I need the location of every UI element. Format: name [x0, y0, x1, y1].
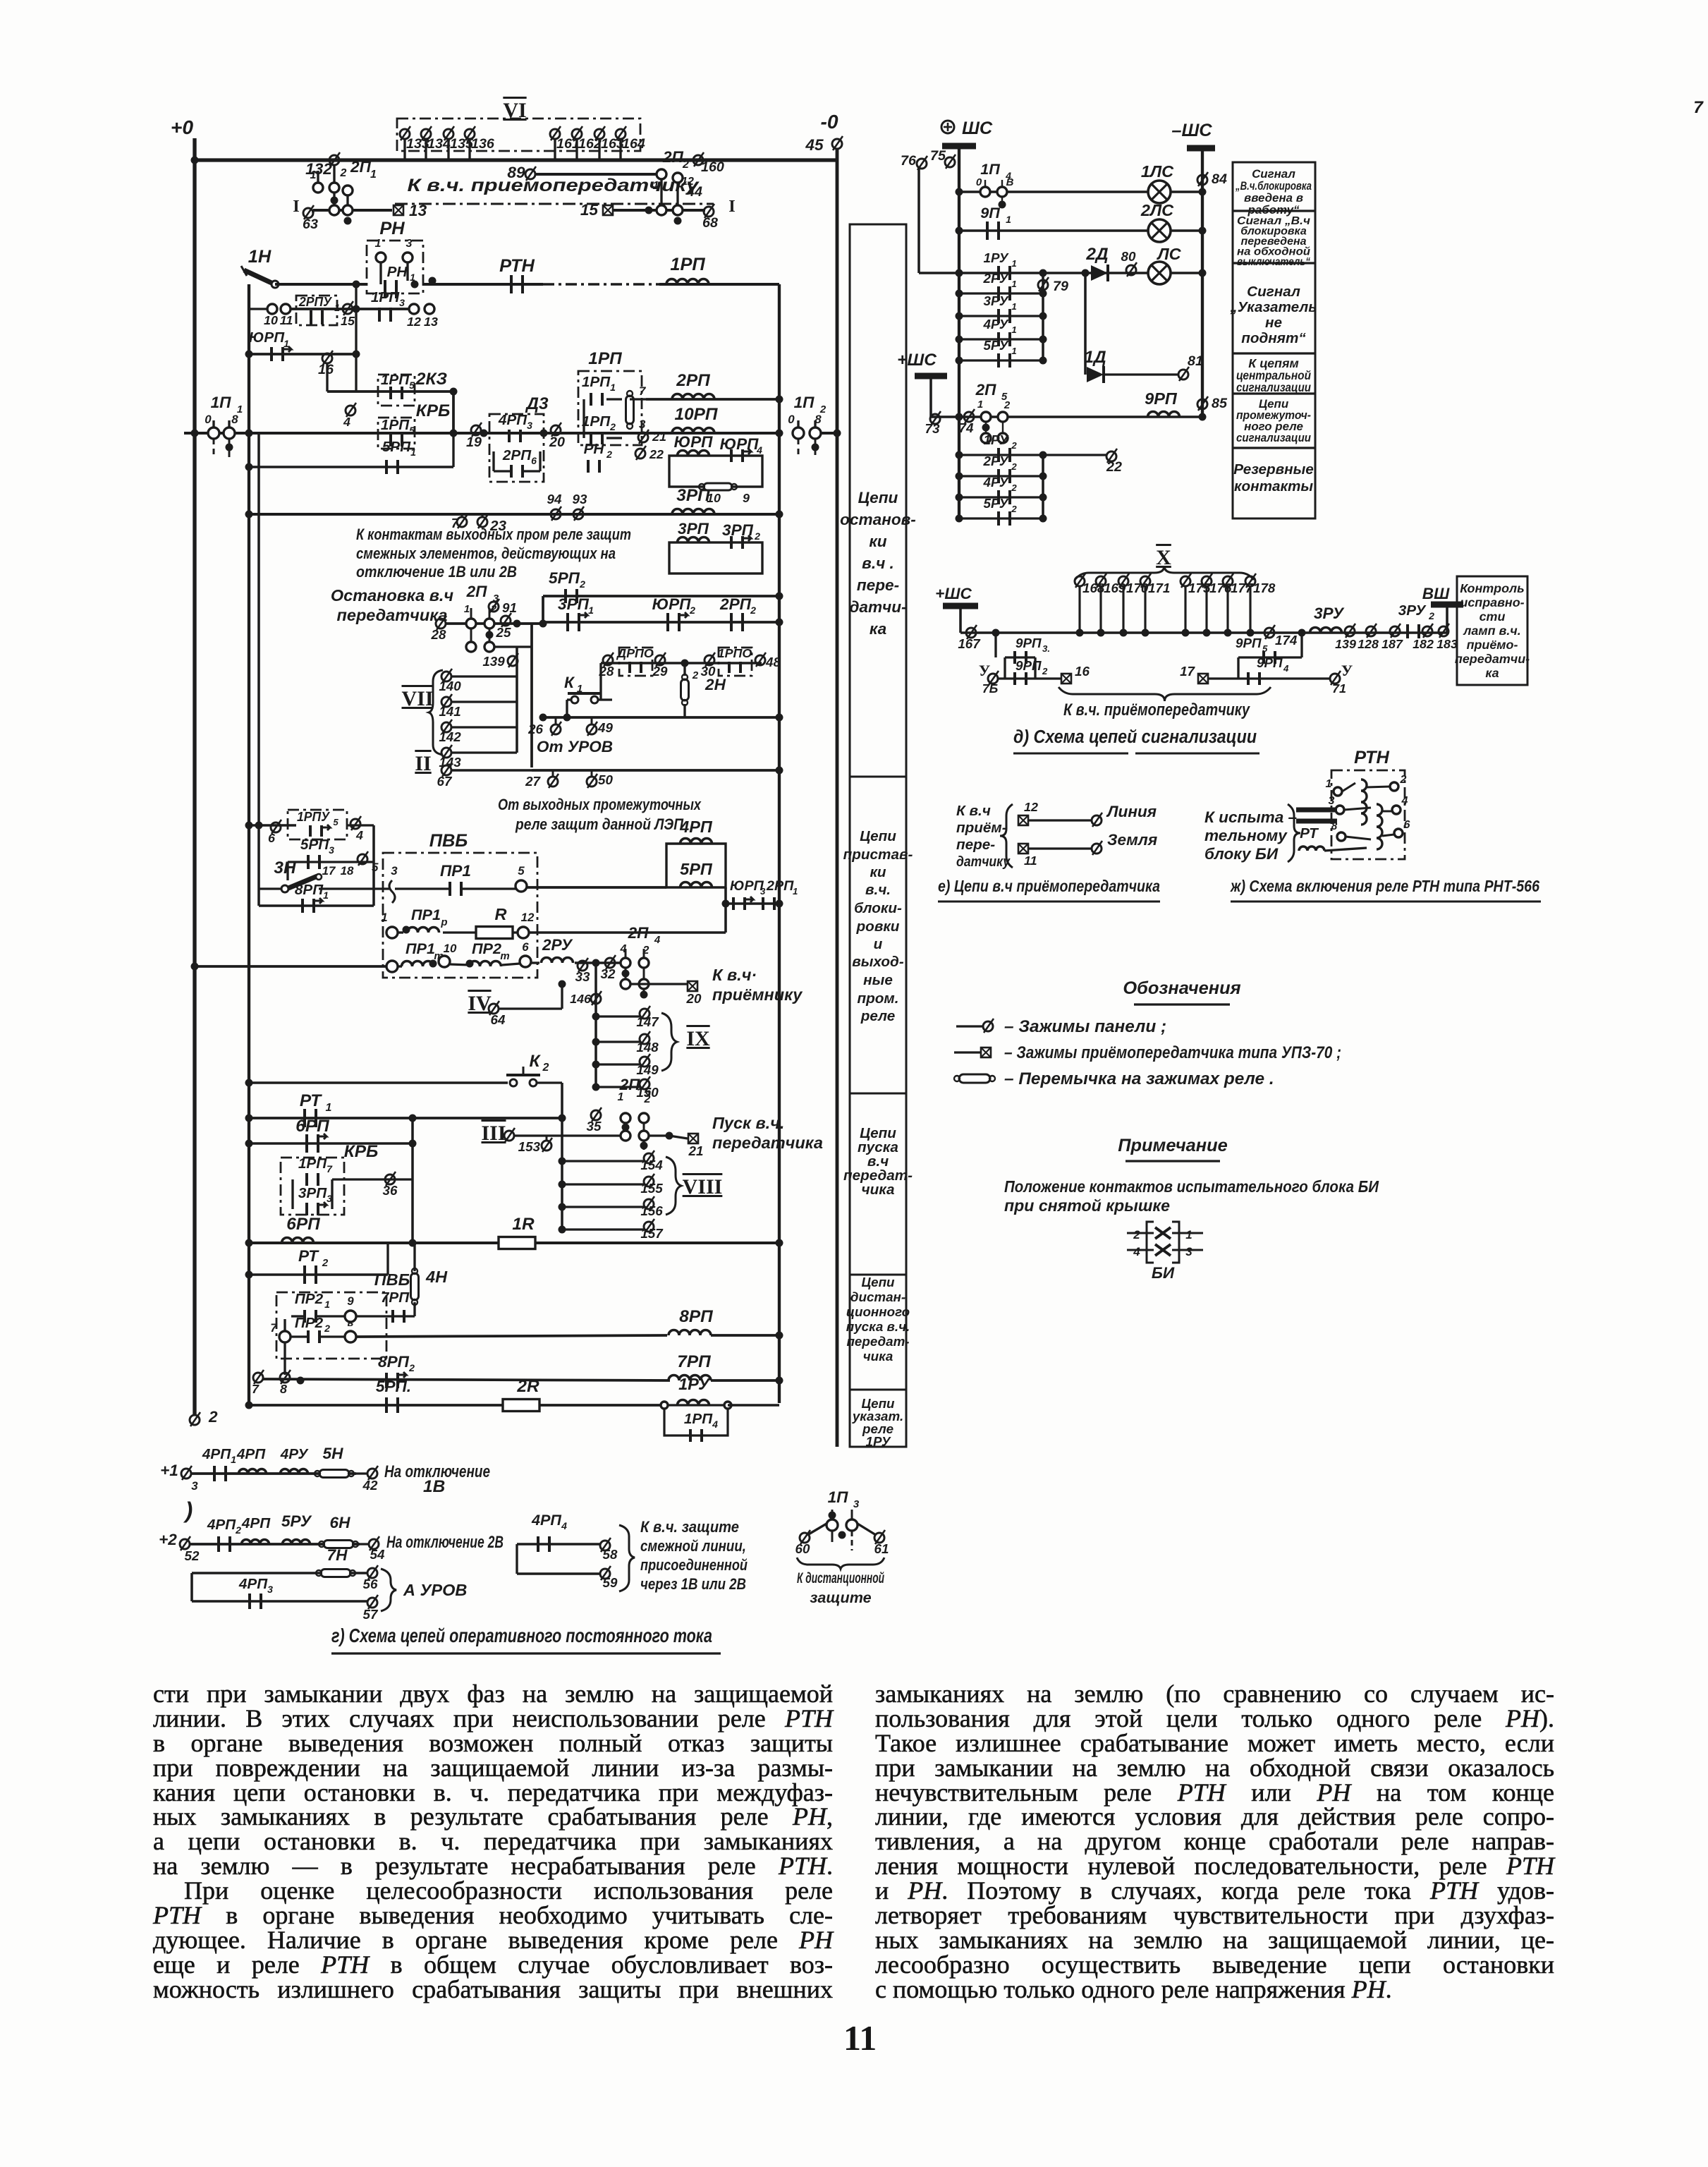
wire [212, 420, 214, 427]
svg-text:139: 139 [482, 654, 505, 669]
pin 6 [520, 956, 531, 967]
contact 2РПУ1 [311, 310, 322, 324]
svg-text:1РП: 1РП [298, 1155, 327, 1172]
wire [625, 949, 627, 958]
svg-text:присоединенной: присоединенной [640, 1556, 748, 1574]
svg-text:2: 2 [579, 578, 585, 590]
terminal 8 [280, 1370, 291, 1384]
coil 5РП [681, 882, 712, 888]
svg-text:„Указатель: „Указатель [1229, 299, 1317, 315]
contact 4РП3 [250, 1594, 261, 1609]
svg-text:73: 73 [925, 421, 940, 436]
svg-text:R: R [495, 905, 507, 923]
junction [559, 1115, 566, 1122]
wire [1300, 633, 1303, 657]
svg-text:160: 160 [701, 159, 724, 175]
pin 9 [345, 1311, 356, 1322]
terminal 28 [436, 616, 446, 630]
svg-text:3: 3 [527, 420, 532, 431]
wire [374, 887, 389, 890]
wire [643, 949, 645, 958]
coil 4РП [681, 839, 712, 844]
svg-text:45: 45 [805, 136, 824, 154]
svg-text:III: III [481, 1122, 506, 1145]
terminal 140 [441, 669, 452, 683]
terminal 6 [271, 820, 281, 834]
svg-text:6: 6 [531, 455, 537, 466]
wire [959, 609, 962, 633]
wire [535, 173, 661, 176]
svg-text:141: 141 [439, 704, 460, 719]
svg-text:1: 1 [1011, 346, 1016, 356]
wire [959, 496, 1043, 498]
wire [958, 149, 960, 516]
wire [1324, 848, 1367, 851]
wire [386, 1243, 389, 1275]
svg-text:2: 2 [682, 159, 689, 171]
contact 3РП2 [731, 535, 751, 549]
push contact К2 [506, 1067, 540, 1086]
svg-text:6: 6 [1404, 819, 1410, 831]
junction [245, 1402, 253, 1409]
indicator 7Н [316, 1570, 355, 1577]
svg-text:171: 171 [1148, 581, 1170, 595]
terminal 148 [640, 1031, 650, 1045]
contact 9РП2 [1015, 672, 1026, 685]
wire [994, 633, 996, 657]
svg-text:– Зажимы приёмопередатчика: – Зажимы приёмопередатчика типа УПЗ-70 ; [1004, 1043, 1341, 1062]
junction [513, 620, 521, 628]
coil 4РП (2) [242, 1540, 269, 1544]
wire [931, 415, 1202, 418]
svg-text:10: 10 [444, 942, 457, 955]
wire [711, 1334, 779, 1337]
svg-text:ПР1: ПР1 [440, 862, 471, 880]
wire [1005, 656, 1035, 658]
svg-text:1РУ: 1РУ [984, 250, 1009, 265]
terminal 149 [640, 1054, 650, 1068]
svg-text:17: 17 [1180, 664, 1195, 679]
wire [275, 283, 367, 286]
wire [831, 1531, 834, 1542]
junction [956, 188, 963, 196]
junction [956, 413, 963, 421]
2П3 pivot [466, 619, 476, 629]
contact 9РП5 [1264, 651, 1275, 664]
terminal IV [489, 1001, 499, 1015]
svg-text:164: 164 [622, 136, 645, 152]
terminal 170 [1118, 573, 1129, 588]
2П3 pivot [484, 619, 494, 629]
wire [494, 645, 532, 648]
svg-text:ПР1: ПР1 [405, 940, 435, 957]
svg-text:61: 61 [874, 1541, 889, 1556]
terminal 156 [644, 1196, 654, 1210]
wire [851, 1510, 853, 1519]
svg-text:71: 71 [1332, 681, 1346, 696]
svg-text:50: 50 [598, 772, 613, 787]
svg-text:смежных элементов, действующих: смежных элементов, действующих на [356, 545, 616, 562]
svg-text:IX: IX [686, 1027, 710, 1050]
contact 1РПУ5 box [288, 810, 347, 839]
wire [676, 183, 678, 205]
contact 10РП4 [731, 449, 751, 462]
svg-text:140: 140 [439, 679, 461, 693]
svg-text:передатчика: передатчика [712, 1134, 823, 1152]
wire [355, 354, 357, 391]
terminal 79 [1038, 277, 1049, 291]
wire [379, 262, 382, 284]
junction [344, 217, 352, 225]
wire [724, 887, 727, 933]
contact РТ2 [305, 1265, 316, 1284]
svg-text:3: 3 [406, 238, 413, 250]
svg-text:3: 3 [267, 1584, 273, 1595]
junction [245, 1079, 253, 1087]
wire [461, 514, 463, 517]
svg-text:174: 174 [1275, 633, 1298, 648]
svg-text:1: 1 [324, 1299, 330, 1310]
wire [406, 262, 408, 281]
transceiver terminal 15 [603, 205, 613, 215]
svg-text:5РП: 5РП [549, 569, 580, 587]
junction [429, 277, 437, 285]
wire [529, 931, 726, 934]
wire [998, 677, 1061, 679]
svg-text:15: 15 [341, 314, 355, 328]
svg-text:2: 2 [1011, 440, 1017, 451]
svg-text:+ШС: +ШС [935, 585, 972, 602]
wire [516, 1544, 518, 1574]
svg-text:2: 2 [609, 421, 616, 432]
pin 5 [516, 880, 527, 892]
svg-text:1РУ: 1РУ [866, 1434, 891, 1449]
device Д3 dashed box [489, 414, 544, 482]
wire [594, 963, 597, 1087]
resistor 1R [499, 1237, 535, 1249]
2П6 pivot [621, 1113, 630, 1123]
svg-text:1РП: 1РП [381, 417, 410, 433]
wire [451, 769, 532, 772]
lamp 1ЛС [1148, 181, 1171, 203]
wire [596, 1040, 640, 1043]
svg-text:1РПУ: 1РПУ [297, 809, 330, 824]
terminal 15 [343, 301, 353, 315]
wire [683, 663, 685, 676]
1П3 pivot [846, 1519, 858, 1531]
junction [191, 157, 199, 164]
wire [184, 432, 779, 435]
svg-text:в.ч .: в.ч . [862, 554, 894, 572]
wire [543, 621, 779, 624]
svg-text:2: 2 [322, 1257, 329, 1269]
wire [539, 451, 541, 471]
wire [1342, 783, 1355, 791]
svg-text:3: 3 [391, 864, 398, 878]
1П2 pivot [810, 427, 821, 439]
wire [606, 398, 622, 400]
junction [1039, 312, 1047, 320]
svg-text:148: 148 [636, 1040, 659, 1055]
terminal 128 [1366, 624, 1377, 638]
svg-text:Остановка в.ч: Остановка в.ч [331, 586, 454, 605]
svg-text:4: 4 [1401, 795, 1408, 807]
coil 10РП (loop) [678, 451, 709, 456]
wire [959, 190, 1202, 193]
terminal +1 [181, 1466, 192, 1480]
wire [1367, 787, 1390, 787]
svg-text:12: 12 [521, 911, 535, 924]
svg-text:4РП: 4РП [202, 1446, 231, 1462]
lamp control box [1457, 576, 1527, 685]
brace УРОВ [381, 1569, 396, 1611]
wire [398, 931, 403, 933]
contact ПР2-1 [305, 1310, 316, 1323]
junction [1182, 629, 1190, 637]
svg-text:–ШС: –ШС [1171, 121, 1212, 140]
wire [492, 451, 494, 471]
wire [797, 420, 799, 427]
wire [562, 1160, 645, 1162]
junction [776, 396, 783, 403]
svg-text:ШС: ШС [962, 119, 993, 138]
loop 3РП / 3РП2 [669, 542, 762, 573]
wire [596, 1086, 640, 1088]
svg-text:ЮРП: ЮРП [249, 329, 285, 346]
wire [213, 439, 215, 457]
svg-text:2: 2 [754, 530, 760, 542]
svg-text:реле: реле [860, 1008, 896, 1024]
wire [1043, 454, 1107, 456]
svg-text:РН: РН [379, 219, 405, 238]
contact 2РУ2 [999, 469, 1010, 483]
terminal 23 [477, 514, 488, 528]
wire [190, 1543, 360, 1546]
terminal Линия [1092, 813, 1102, 827]
wire [1209, 677, 1330, 679]
wire [1029, 819, 1092, 821]
pin 5 [345, 1331, 356, 1342]
terminal 19 [471, 423, 482, 437]
svg-text:8РП: 8РП [378, 1353, 410, 1371]
switch inside ПВБ [389, 880, 395, 903]
terminal 160 [693, 152, 704, 166]
svg-text:2РУ: 2РУ [983, 271, 1009, 286]
wire [625, 1123, 627, 1131]
junction [559, 1158, 566, 1165]
1П3 pivot [826, 1519, 838, 1531]
terminal 139 [508, 653, 518, 667]
svg-text:1П: 1П [794, 394, 815, 411]
svg-text:2: 2 [606, 449, 612, 460]
wire [527, 886, 666, 889]
svg-text:10: 10 [264, 313, 278, 327]
contact 1РПО [729, 662, 740, 673]
svg-text:12: 12 [1024, 800, 1038, 814]
РТН pin 8 [1337, 832, 1346, 841]
junction [1247, 629, 1255, 637]
contact РТН [511, 275, 523, 293]
contact ЮРП3 [733, 897, 753, 910]
svg-text:7: 7 [252, 1382, 260, 1396]
svg-text:54: 54 [370, 1547, 385, 1562]
svg-text:1Н: 1Н [248, 247, 272, 267]
terminal 169 [1096, 573, 1106, 588]
svg-text:Д3: Д3 [525, 394, 549, 413]
terminal 146 [591, 991, 602, 1005]
wire [543, 716, 779, 719]
svg-text:VIII: VIII [683, 1175, 723, 1198]
junction [681, 660, 689, 667]
svg-text:9РП: 9РП [1015, 658, 1042, 673]
svg-text:I: I [728, 197, 736, 216]
wire [413, 1302, 415, 1316]
terminal 21 [638, 430, 649, 444]
junction [956, 227, 963, 235]
svg-text:3: 3 [1329, 795, 1335, 807]
terminal 154 [644, 1151, 654, 1165]
2П5 pivot [981, 412, 991, 422]
junction [776, 1377, 783, 1385]
terminal symbol [983, 1019, 994, 1033]
wire [468, 139, 470, 160]
junction [1039, 473, 1047, 480]
svg-text:76: 76 [901, 153, 917, 169]
wire [1382, 811, 1392, 813]
junction [409, 1115, 417, 1122]
2П6 pivot [639, 1113, 649, 1123]
coil 3РП [672, 509, 714, 514]
wire [532, 769, 779, 772]
contact 1РПО box [719, 648, 752, 676]
junction [1199, 269, 1207, 277]
svg-text:сти: сти [1480, 609, 1506, 624]
2П6 pivot [639, 1131, 649, 1141]
pin 7 [279, 1331, 291, 1342]
terminal 134 [421, 126, 432, 140]
contact 1РП5 (lower) [391, 434, 402, 447]
svg-text:РТ: РТ [1300, 825, 1319, 842]
2П1 pivot [343, 205, 353, 215]
wire [451, 675, 517, 677]
terminal 177 [1223, 573, 1233, 588]
svg-text:Цепи: Цепи [860, 828, 896, 844]
junction [353, 351, 360, 358]
wire [356, 1543, 370, 1545]
diode 1Д [1087, 366, 1104, 383]
svg-text:20: 20 [549, 435, 565, 450]
terminal 174 [1264, 625, 1275, 639]
svg-text:4РП: 4РП [531, 1511, 561, 1529]
terminal 76 [917, 156, 927, 170]
junction [640, 1142, 648, 1150]
brace VII group [429, 670, 443, 755]
svg-text:142: 142 [439, 729, 461, 744]
pin 1 [386, 927, 398, 938]
jumper on relay 1РП [626, 391, 634, 429]
svg-text:1РП: 1РП [684, 1411, 713, 1427]
junction [466, 960, 474, 968]
svg-text:128: 128 [1358, 637, 1379, 651]
svg-text:52: 52 [185, 1548, 200, 1563]
junction [640, 991, 648, 999]
wire [312, 210, 314, 213]
terminal 25 [501, 613, 511, 627]
junction [1039, 451, 1047, 459]
terminal 68 [704, 204, 714, 218]
wire [1104, 373, 1179, 375]
svg-text:КРБ: КРБ [416, 401, 451, 420]
contact 8РП2 [386, 1372, 406, 1388]
РТН pin 2 [1390, 782, 1398, 791]
coil 6РП [282, 1238, 314, 1243]
svg-text:67: 67 [437, 774, 453, 789]
svg-text:21: 21 [652, 430, 666, 444]
svg-text:1: 1 [793, 886, 798, 897]
svg-text:27: 27 [525, 774, 541, 789]
terminal 52 [180, 1536, 190, 1550]
svg-text:2Н: 2Н [704, 676, 726, 693]
wire [413, 1243, 415, 1271]
svg-text:3РУ: 3РУ [984, 293, 1009, 308]
svg-text:3РУ: 3РУ [1398, 602, 1427, 619]
wire [1001, 180, 1003, 187]
junction [563, 714, 571, 722]
svg-text:3: 3 [191, 1479, 198, 1493]
terminal 5 [358, 851, 368, 866]
wire [562, 1183, 645, 1185]
junction [1097, 629, 1105, 637]
svg-text:2: 2 [1428, 610, 1434, 621]
svg-text:сигнализации: сигнализации [1236, 380, 1311, 394]
2П4 pivot [621, 958, 630, 968]
wire [1004, 657, 1006, 679]
svg-text:ЮРП: ЮРП [652, 595, 692, 613]
svg-text:г) Схема цепей оперативного по: г) Схема цепей оперативного постоянного … [331, 1625, 712, 1646]
wire [249, 824, 296, 827]
terminal 22 [635, 446, 646, 460]
wire [591, 717, 593, 725]
junction [776, 714, 783, 722]
junction [1039, 290, 1047, 298]
contact 1РП5 box (lower) [378, 418, 415, 449]
wire [606, 437, 622, 439]
svg-text:22: 22 [649, 447, 664, 461]
svg-text:ровки: ровки [856, 918, 900, 935]
wire [228, 420, 230, 427]
svg-text:5: 5 [333, 817, 338, 827]
wire [403, 139, 405, 160]
wire [249, 1081, 508, 1084]
svg-text:1: 1 [1185, 1228, 1192, 1242]
svg-text:выключатель“: выключатель“ [1237, 256, 1310, 268]
svg-text:8РП: 8РП [295, 882, 324, 898]
coil winding 2 of РТН [1377, 804, 1382, 849]
wire [683, 704, 685, 717]
terminal 142 [441, 720, 452, 734]
svg-text:сигнализации: сигнализации [1236, 431, 1312, 444]
contact 3РП1 [568, 612, 587, 631]
svg-text:1: 1 [310, 169, 317, 181]
wire [643, 968, 645, 979]
brace е) [1000, 804, 1013, 868]
svg-text:1РПО: 1РПО [718, 646, 752, 660]
terminal Земля [1092, 841, 1102, 855]
lamp 2ЛС [1148, 219, 1171, 242]
svg-text:3: 3 [1185, 1245, 1192, 1258]
wire [1002, 422, 1004, 433]
svg-text:2РП: 2РП [719, 595, 752, 613]
